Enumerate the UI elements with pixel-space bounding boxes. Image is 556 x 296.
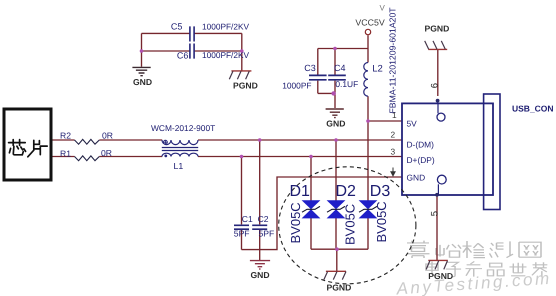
pin 4 arrow marker [391,168,395,176]
pin number 1 [392,110,397,120]
label L2 [372,63,383,74]
svg-text:BV05C: BV05C [374,201,389,242]
svg-text:GND: GND [407,172,426,182]
label C2 [258,214,269,224]
svg-text:C5: C5 [171,22,183,32]
dashed protection circle around D1-D3 [279,167,416,284]
svg-text:V: V [380,4,386,13]
wire VCC5V stem [367,35,369,62]
wire C1 branch from D+ [241,157,243,250]
value BV05C (D1) [288,202,303,243]
svg-text:PGND: PGND [233,81,258,91]
label L1 [174,161,184,171]
wire diode bottom rail to PGND [311,218,368,271]
net label PGND (below USB) [428,271,453,281]
svg-text:L2: L2 [372,63,383,74]
net label GND (top left) [133,77,152,87]
capacitor C5 [190,26,194,41]
power ground PGND (C5/C6) [229,71,251,79]
power port VCC5V [365,29,370,34]
wire USB pin 5 to bottom PGND [436,195,438,260]
wire GND stem below C1/C2 [259,250,261,260]
capacitor C6 [190,44,194,59]
wire C5 top horizontal [142,32,242,34]
svg-text:WCM-2012-900T: WCM-2012-900T [151,123,215,133]
pin name D-(DM) [407,139,435,149]
value FBMA-11-201209-601A20T (L2) [388,7,398,114]
wire C2 branch from D- [259,140,261,250]
TVS diode D3 [359,200,378,218]
svg-text:D2: D2 [336,183,357,200]
watermark 嘉峪检测网 [407,241,542,258]
label C4 [334,63,346,73]
svg-text:PGND: PGND [428,271,453,281]
svg-text:USB_CON: USB_CON [512,103,554,113]
inductor L2 [364,63,368,97]
svg-text:0R: 0R [101,148,112,158]
pin number 3 [391,146,396,156]
svg-text:PGND: PGND [425,23,450,33]
wire GND net: USB pin 4 to C1/C2 ground rail [242,177,403,250]
svg-text:D+(DP): D+(DP) [407,155,435,165]
label C5 [171,22,183,32]
svg-text:C3: C3 [304,63,316,73]
svg-text:GND: GND [326,118,345,128]
svg-text:1000PF/2KV: 1000PF/2KV [202,22,250,32]
net label PGND (top left) [233,81,258,91]
svg-text:PGND: PGND [327,282,352,292]
net label PGND (below diodes) [327,282,352,292]
capacitor C2 [252,225,267,229]
resistor R1 [75,156,100,161]
svg-text:R2: R2 [60,131,71,141]
net label GND (middle) [326,118,345,128]
pin name GND [407,172,426,182]
label C3 [304,63,316,73]
junction dot USB pin6 [436,99,440,103]
svg-text:5: 5 [430,211,441,216]
value 0R (R1) [101,148,112,158]
svg-text:5PF: 5PF [259,228,275,238]
value 5PF (C2) [259,228,275,238]
capacitor C1 [234,225,249,229]
svg-text:6: 6 [430,83,441,88]
resistor R2 [75,139,100,144]
USB pin 5 circle [437,175,446,195]
wire C3 branch [317,49,319,94]
wire C5/C6 right vertical to PGND [241,33,243,70]
value 1000PF (C3) [282,80,311,90]
chip box [4,109,51,180]
common-mode choke L1 [162,140,198,157]
svg-text:D3: D3 [370,183,391,200]
value 0R (R2) [102,131,113,141]
wire PGND top-right stem to USB pin 6 [437,49,439,96]
USB connector symbol box U1 [402,103,493,195]
svg-text:0.1UF: 0.1UF [335,79,358,89]
svg-text:GND: GND [251,270,270,280]
pin number 6 [430,83,441,88]
label C6 [177,51,189,61]
svg-text:BV05C: BV05C [343,204,358,245]
svg-text:C4: C4 [334,63,346,73]
label WCM-2012-900T (L1) [151,123,215,133]
value BV05C (D3) [374,201,389,242]
svg-text:D-(DM): D-(DM) [407,139,435,149]
svg-text:FBMA-11-201209-601A20T: FBMA-11-201209-601A20T [388,7,398,114]
capacitor C3 [309,75,327,79]
junction dot USB pin5 [435,193,439,197]
power ground PGND (top right) [425,41,448,50]
power ground PGND (below USB) [426,260,448,269]
wire D+ net (chip to USB pin 3) [53,156,403,158]
wire 5V net vertical through L2 to D3 [367,96,369,201]
value 1000PF/2KV (C6) [202,50,250,60]
svg-text:0R: 0R [102,131,113,141]
value 1000PF/2KV (C5) [202,22,250,32]
svg-text:3: 3 [391,146,396,156]
ground GND (C5/C6) [132,67,150,75]
label R2 [60,131,71,141]
pin name D+(DP) [407,155,435,165]
net label VCC5V [355,18,384,28]
net label PGND (top right) [425,23,450,33]
wire D1 top stem from D+ [310,157,312,202]
TVS diode D2 [327,200,346,218]
wire C6 horizontal [142,50,242,52]
stray mark top [380,4,386,13]
wire C5/C6 left vertical to GND [141,33,143,66]
svg-text:C2: C2 [258,214,269,224]
wire C4 branch [334,49,336,94]
watermark AnyTesting.com [395,269,552,296]
value 5PF (C1) [234,228,250,238]
USB connector shell outline [484,94,500,210]
wire C3/C4 bottom rail to GND [318,93,335,108]
TVS diode D1 [302,200,321,218]
svg-text:5V: 5V [407,119,418,129]
svg-text:1000PF/2KV: 1000PF/2KV [202,50,250,60]
svg-text:1: 1 [392,110,397,120]
USB pin 6 circle [437,103,445,121]
label D1 [290,183,311,200]
svg-text:1000PF: 1000PF [282,80,311,90]
svg-text:VCC5V: VCC5V [355,18,384,28]
wire VCC top horizontal to C3/C4 [318,48,368,50]
label USB_CON [512,103,554,113]
ground GND (C3/C4) [326,109,344,118]
label C1 [242,214,253,224]
pin number 5 [430,211,441,216]
capacitor C4 [328,75,346,79]
label D2 [336,183,357,200]
pin number 2 [391,129,396,139]
wire 5V branch to USB pin 1 [368,120,402,122]
wire D- net (chip to USB pin 2) [53,139,403,141]
pin name 5V [407,119,418,129]
chip label 芯片 [9,140,48,157]
ground GND (C1/C2) [250,261,270,269]
net label GND (bottom left) [251,270,270,280]
watermark 电子产品世界 [426,261,547,276]
label D3 [370,183,391,200]
svg-text:5PF: 5PF [234,228,250,238]
svg-text:2: 2 [391,129,396,139]
wire D2 top stem from D- [335,140,337,201]
svg-text:C1: C1 [242,214,253,224]
value 0.1UF (C4) [335,79,358,89]
svg-text:L1: L1 [174,161,184,171]
svg-text:GND: GND [133,77,152,87]
svg-text:C6: C6 [177,51,189,61]
label R1 [60,148,71,158]
svg-text:R1: R1 [60,148,71,158]
svg-text:BV05C: BV05C [288,202,303,243]
svg-text:D1: D1 [290,183,311,200]
value BV05C (D2) [343,204,358,245]
power ground PGND (below diodes) [324,271,346,279]
